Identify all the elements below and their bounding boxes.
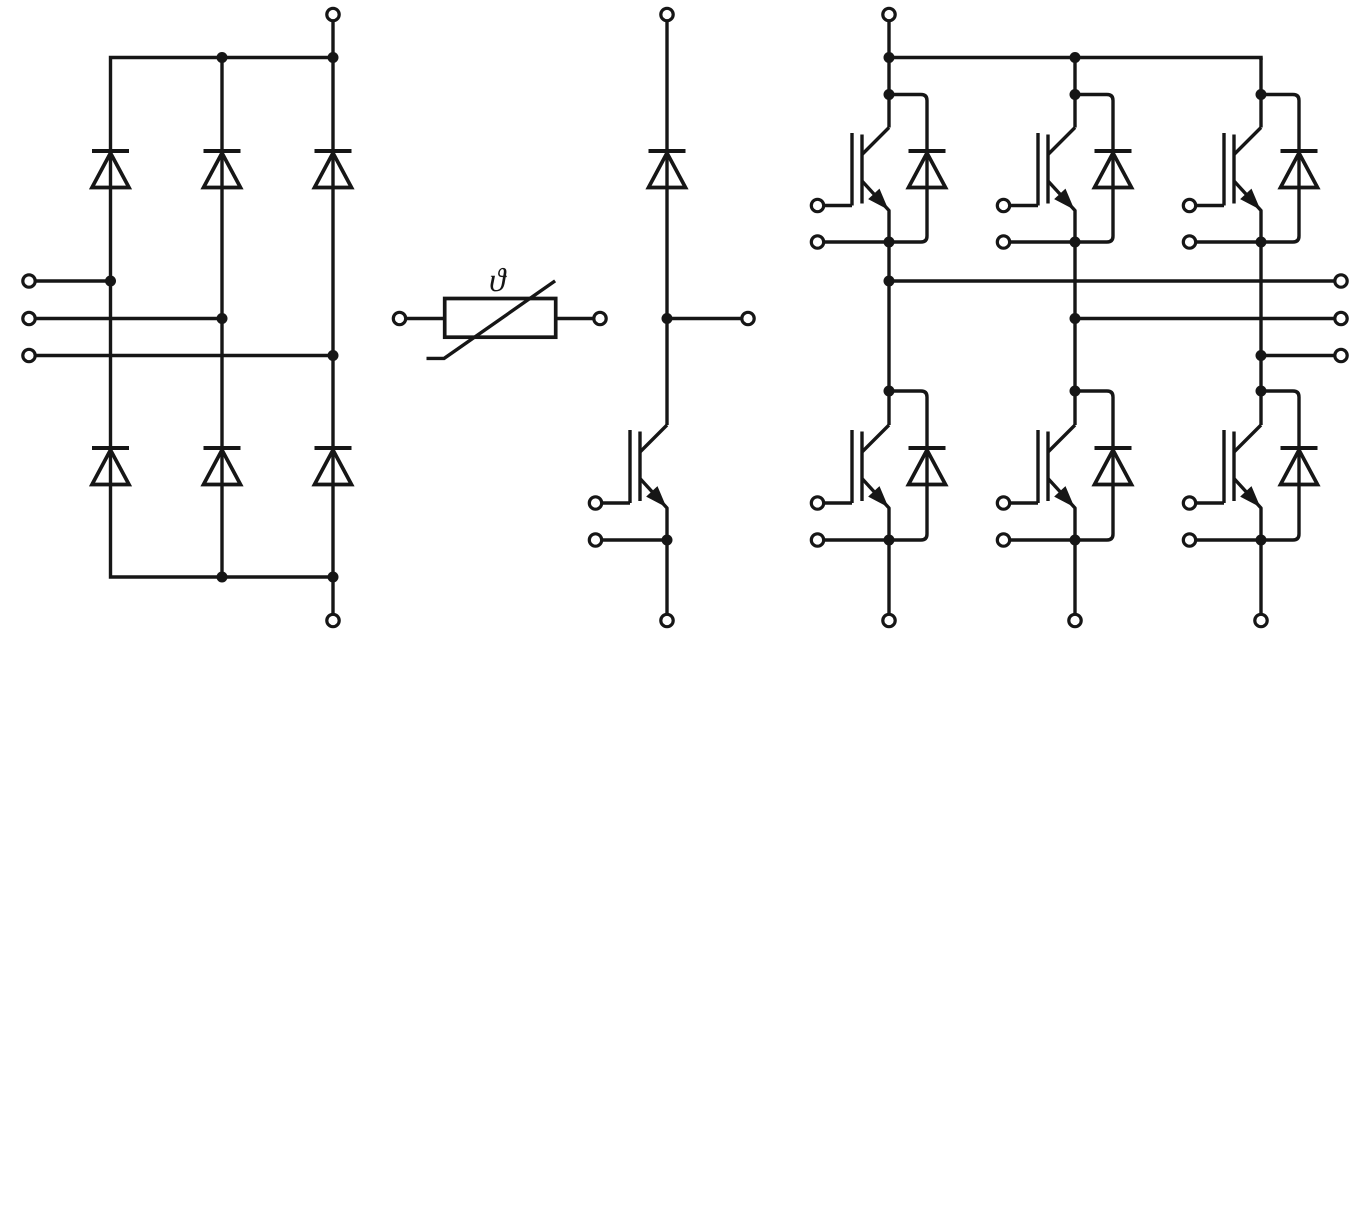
- thermistor R1 body: [445, 299, 556, 338]
- diode D3 (rectifier top, leg 2): [204, 151, 241, 188]
- wire brake leg lower vertical: [665, 540, 668, 614]
- wire inverter leg 3 mid vertical: [1259, 242, 1262, 425]
- terminal Q3 emitter sense: [997, 236, 1009, 248]
- wire leg 1 lower diode branch: [889, 391, 927, 540]
- diode D9 (freewheel, lower leg 1): [909, 448, 946, 485]
- wire leg 2 upper diode branch: [1075, 95, 1113, 243]
- diode D8 (freewheel, upper leg 1): [909, 151, 946, 188]
- wire Q6 gate lead: [1196, 501, 1224, 504]
- wire Q5 emitter sense lead: [1196, 240, 1261, 243]
- diode D6 (rectifier bottom, leg 2): [204, 448, 241, 485]
- wire AC input line 3: [35, 354, 333, 357]
- junction brake emitter node: [662, 535, 673, 546]
- wire leg 3 upper diode branch: [1261, 95, 1299, 243]
- junction leg 1 lower emitter node: [884, 535, 895, 546]
- wire AC input line 2: [35, 317, 222, 320]
- terminal DC+ (rectifier): [327, 8, 339, 20]
- terminal Q5 emitter sense: [1183, 236, 1195, 248]
- terminal AC input 3: [23, 349, 35, 361]
- junction leg 3 lower emitter node: [1256, 535, 1267, 546]
- transistor Q2 (lower IGBT leg 1): [852, 425, 889, 540]
- terminal inverter leg 2 bottom (DC-): [1069, 614, 1081, 626]
- junction AC2 / leg 2: [217, 313, 228, 324]
- transistor Q5 (upper IGBT leg 3): [1224, 128, 1261, 243]
- junction leg 3 lower collector node: [1256, 386, 1267, 397]
- diode D10 (freewheel, upper leg 2): [1095, 151, 1132, 188]
- terminal inverter leg 3 bottom (DC-): [1255, 614, 1267, 626]
- wire phase U output: [889, 279, 1335, 282]
- terminal Q4 emitter sense: [997, 534, 1009, 546]
- wire thermistor left lead: [406, 317, 445, 320]
- wire phase V output: [1075, 317, 1335, 320]
- junction leg 1 upper collector node: [884, 89, 895, 100]
- wire leg 3 lower diode branch: [1261, 391, 1299, 540]
- junction rectifier top bus / leg 2: [217, 52, 228, 63]
- junction inverter top bus / leg 2: [1070, 52, 1081, 63]
- wire Q3 gate lead: [1010, 204, 1038, 207]
- wire rectifier leg 3 vertical (DC+ terminal to DC- terminal): [331, 21, 334, 614]
- junction leg 3 phase tap: [1256, 350, 1267, 361]
- terminal phase W output: [1335, 349, 1347, 361]
- wire inverter leg 2 bottom vertical: [1073, 540, 1076, 614]
- wire inverter DC+ terminal stub: [887, 21, 890, 58]
- terminal brake chopper output: [742, 312, 754, 324]
- transistor Q7 (brake IGBT): [630, 425, 667, 540]
- wire inverter leg 2 upper vertical: [1073, 58, 1076, 128]
- terminal AC input 2: [23, 312, 35, 324]
- junction leg 2 lower collector node: [1070, 386, 1081, 397]
- wire Q2 emitter sense lead: [824, 538, 889, 541]
- wire Q1 emitter sense lead: [824, 240, 889, 243]
- thermistor diagonal stroke: [427, 281, 556, 359]
- junction leg 2 lower emitter node: [1070, 535, 1081, 546]
- diode D2 (rectifier bottom, leg 3): [315, 448, 352, 485]
- transistor Q1 (upper IGBT leg 1): [852, 128, 889, 243]
- junction leg 2 phase tap: [1070, 313, 1081, 324]
- terminal brake gate: [589, 497, 601, 509]
- junction AC3 / leg 3: [328, 350, 339, 361]
- wire Q2 gate lead: [824, 501, 852, 504]
- junction brake chopper node: [662, 313, 673, 324]
- wire inverter leg 3 upper vertical: [1259, 58, 1262, 128]
- terminal Q6 gate: [1183, 497, 1195, 509]
- junction leg 2 upper emitter node: [1070, 237, 1081, 248]
- terminal phase U output: [1335, 275, 1347, 287]
- wire brake chopper node to terminal: [667, 317, 742, 320]
- junction leg 3 upper emitter node: [1256, 237, 1267, 248]
- transistor Q3 (upper IGBT leg 2): [1038, 128, 1075, 243]
- terminal Q2 emitter sense: [811, 534, 823, 546]
- wire thermistor right lead: [556, 317, 594, 320]
- diode D12 (freewheel, upper leg 3): [1281, 151, 1318, 188]
- wire Q3 emitter sense lead: [1010, 240, 1075, 243]
- diode D1 (rectifier top, leg 1): [92, 151, 129, 188]
- terminal phase V output: [1335, 312, 1347, 324]
- junction leg 2 upper collector node: [1070, 89, 1081, 100]
- terminal brake top (DC+): [661, 8, 673, 20]
- wire Q6 emitter sense lead: [1196, 538, 1261, 541]
- terminal Q1 gate: [811, 199, 823, 211]
- terminal Q6 emitter sense: [1183, 534, 1195, 546]
- wire brake gate lead: [602, 501, 630, 504]
- wire inverter leg 1 upper vertical: [887, 58, 890, 128]
- wire brake emitter sense lead: [602, 538, 667, 541]
- terminal Q2 gate: [811, 497, 823, 509]
- diode D11 (freewheel, lower leg 2): [1095, 448, 1132, 485]
- diode D13 (freewheel, lower leg 3): [1281, 448, 1318, 485]
- wire inverter leg 1 bottom vertical: [887, 540, 890, 614]
- wire leg 1 upper diode branch: [889, 95, 927, 243]
- terminal Q5 gate: [1183, 199, 1195, 211]
- terminal Q3 gate: [997, 199, 1009, 211]
- junction inverter top bus / leg 1: [884, 52, 895, 63]
- terminal AC input 1: [23, 275, 35, 287]
- junction leg 1 upper emitter node: [884, 237, 895, 248]
- terminal inverter leg 1 bottom (DC-): [883, 614, 895, 626]
- transistor Q4 (lower IGBT leg 2): [1038, 425, 1075, 540]
- junction rectifier bottom bus / leg 3: [328, 572, 339, 583]
- wire leg 2 lower diode branch: [1075, 391, 1113, 540]
- junction leg 1 lower collector node: [884, 386, 895, 397]
- wire Q4 emitter sense lead: [1010, 538, 1075, 541]
- diode D7 (brake freewheel): [649, 151, 686, 188]
- terminal DC- (rectifier): [327, 614, 339, 626]
- wire Q1 gate lead: [824, 204, 852, 207]
- junction rectifier top bus / leg 3: [328, 52, 339, 63]
- wire inverter leg 1 mid vertical: [887, 242, 890, 425]
- junction leg 1 phase tap: [884, 276, 895, 287]
- terminal Q4 gate: [997, 497, 1009, 509]
- wire rectifier leg 2 vertical: [220, 58, 223, 578]
- wire inverter DC+ top bus: [889, 58, 1261, 61]
- terminal brake emitter sense: [589, 534, 601, 546]
- junction AC1 / leg 1: [105, 276, 116, 287]
- wire phase W output: [1261, 354, 1335, 357]
- wire inverter leg 2 mid vertical: [1073, 242, 1076, 425]
- wire Q5 gate lead: [1196, 204, 1224, 207]
- junction rectifier bottom bus / leg 2: [217, 572, 228, 583]
- wire brake leg upper vertical: [665, 21, 668, 425]
- diode D4 (rectifier bottom, leg 1): [92, 448, 129, 485]
- diode D5 (rectifier top, leg 3): [315, 151, 352, 188]
- wire inverter leg 3 bottom vertical: [1259, 540, 1262, 614]
- wire AC input line 1: [35, 279, 110, 282]
- label theta (temperature): [490, 268, 506, 292]
- terminal thermistor left: [393, 312, 405, 324]
- terminal Q1 emitter sense: [811, 236, 823, 248]
- terminal inverter DC+ top: [883, 8, 895, 20]
- transistor Q6 (lower IGBT leg 3): [1224, 425, 1261, 540]
- wire Q4 gate lead: [1010, 501, 1038, 504]
- terminal brake bottom (DC-): [661, 614, 673, 626]
- terminal thermistor right: [594, 312, 606, 324]
- junction leg 3 upper collector node: [1256, 89, 1267, 100]
- wire rectifier DC+ top bus / leg 1 / DC- bottom bus: [111, 58, 334, 578]
